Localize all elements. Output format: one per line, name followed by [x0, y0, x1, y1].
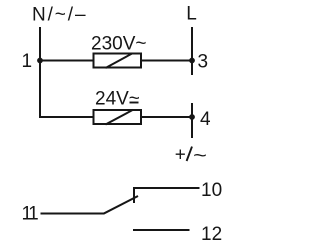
svg-text:3: 3	[198, 52, 209, 73]
wire switch pole 11	[41, 213, 105, 215]
svg-text:4: 4	[200, 109, 211, 130]
svg-text:1: 1	[22, 51, 33, 72]
coil U2 diagonal	[106, 110, 134, 125]
coil U1 230V box	[94, 54, 142, 68]
wire L drop to terminal 3	[191, 27, 193, 75]
svg-text:230V~: 230V~	[91, 33, 146, 54]
svg-text:N/~/–: N/~/–	[32, 5, 87, 26]
coil U2 24V box	[94, 110, 142, 124]
svg-text:L: L	[186, 4, 197, 25]
svg-text:12: 12	[201, 224, 222, 245]
node 4 junction dot	[189, 114, 195, 120]
coil U1 diagonal	[106, 53, 133, 68]
svg-text:11: 11	[22, 204, 39, 225]
value label AC/DC bar under tilde	[130, 102, 139, 104]
wire terminal 12	[133, 229, 190, 231]
svg-text:~: ~	[193, 146, 207, 167]
wire node1 to coil U1	[40, 60, 94, 62]
node 1 junction dot	[37, 58, 43, 64]
wire coil U1 to node 3	[141, 60, 192, 62]
svg-text:+: +	[175, 145, 186, 166]
wire coil U2 to node 4	[141, 116, 192, 118]
svg-text:10: 10	[201, 180, 222, 201]
polarity label slash	[187, 147, 192, 161]
wire terminal 4 stub	[191, 103, 193, 138]
wire N feed: left vertical with corner to coil A2	[40, 27, 94, 117]
switch blade 11-10	[104, 196, 139, 214]
svg-text:24V~: 24V~	[95, 89, 140, 110]
node 3 junction dot	[189, 58, 195, 64]
contact tick and wire to terminal 10	[134, 188, 200, 203]
